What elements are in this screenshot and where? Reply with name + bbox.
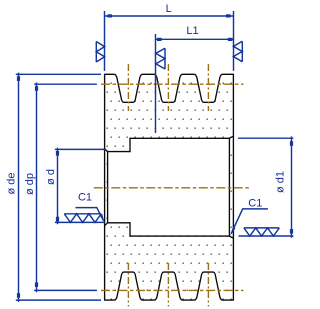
top pitch line [101, 83, 244, 85]
groove 1 bottom centerline [127, 263, 129, 307]
arrow L1 left [157, 38, 162, 41]
dim d extension bottom [55, 221, 105, 223]
C1 left leader arrowhead [100, 214, 105, 222]
arrow d1 bottom [290, 229, 293, 234]
dim dp line [36, 83, 38, 293]
svg-text:C1: C1 [248, 198, 262, 210]
svg-text:L1: L1 [186, 25, 198, 37]
arrow d top [56, 151, 59, 156]
svg-text:ø dp: ø dp [24, 173, 36, 195]
main axis centerline [94, 187, 249, 189]
groove 3 bottom centerline [207, 263, 209, 307]
C1 right leader [231, 209, 268, 234]
dim de line [18, 73, 20, 302]
arrow L right [226, 14, 231, 17]
arrow L left [108, 14, 113, 17]
C1 left leader [76, 208, 104, 221]
bore step verticals at x=130 [129, 138, 131, 236]
right chamfer edge vertical [228, 138, 230, 236]
arrow dp top [35, 86, 38, 91]
svg-text:L: L [166, 3, 172, 15]
right chamfer bottom diagonal [229, 236, 233, 238]
right chamfer top diagonal [229, 136, 233, 138]
groove 1 top centerline [127, 64, 129, 111]
roughness symbol on L left extension [96, 42, 104, 63]
dim L / L1 extension right [233, 11, 235, 71]
arrow de top [17, 76, 20, 81]
C1 right triple-triangle finish mark [244, 228, 279, 236]
counterbore d1 bottom edge [130, 235, 229, 237]
pulley section material (stippled fill) [105, 74, 234, 300]
svg-text:ø de: ø de [5, 172, 17, 194]
small bore d top edge [108, 151, 130, 153]
outer profile with top and bottom grooves [105, 74, 234, 300]
groove 3 top centerline [207, 64, 209, 111]
C1 right leader arrowhead [230, 227, 235, 235]
arrow d bottom [56, 217, 59, 222]
dim d1 extension bottom [239, 235, 294, 237]
dim de extension bottom [16, 299, 101, 301]
left chamfer bottom diagonal [105, 223, 108, 226]
left chamfer edge vertical [107, 152, 109, 223]
roughness symbol on right extension [233, 41, 242, 61]
svg-text:C1: C1 [78, 192, 92, 204]
arrow L1 right [228, 38, 233, 41]
dim L1 line [156, 38, 234, 40]
dim d1 line [291, 136, 293, 237]
bottom pitch line [101, 289, 244, 291]
svg-text:ø d1: ø d1 [275, 171, 287, 193]
dim d extension top [55, 148, 106, 150]
roughness symbol on L1 left extension [156, 48, 165, 69]
groove 2 bottom centerline [167, 263, 169, 307]
dim dp extension bottom [34, 289, 97, 291]
dim dp extension top [34, 83, 97, 85]
leaders and finish symbols (blue) [64, 41, 279, 236]
dim d line [57, 148, 59, 225]
C1 left triple-triangle finish mark [64, 214, 101, 223]
dim L1 extension left [155, 34, 157, 133]
arrow dp bottom [35, 282, 38, 287]
dim d1 extension top [238, 137, 293, 139]
dim L extension left [104, 11, 106, 71]
small bore d bottom edge [108, 222, 130, 224]
centerlines (orange dash-dot) [94, 64, 249, 307]
arrow de bottom [17, 293, 20, 298]
counterbore d1 top edge [130, 137, 229, 139]
svg-text:ø d: ø d [45, 169, 57, 185]
dim L line [105, 15, 234, 17]
arrow d1 top [290, 141, 293, 146]
left chamfer top diagonal [105, 149, 108, 152]
dim de extension top [16, 73, 101, 75]
dimension arrows (filled blue) [17, 14, 293, 298]
pulley outline: rim + grooves [105, 74, 234, 300]
groove 2 top centerline [167, 64, 169, 111]
